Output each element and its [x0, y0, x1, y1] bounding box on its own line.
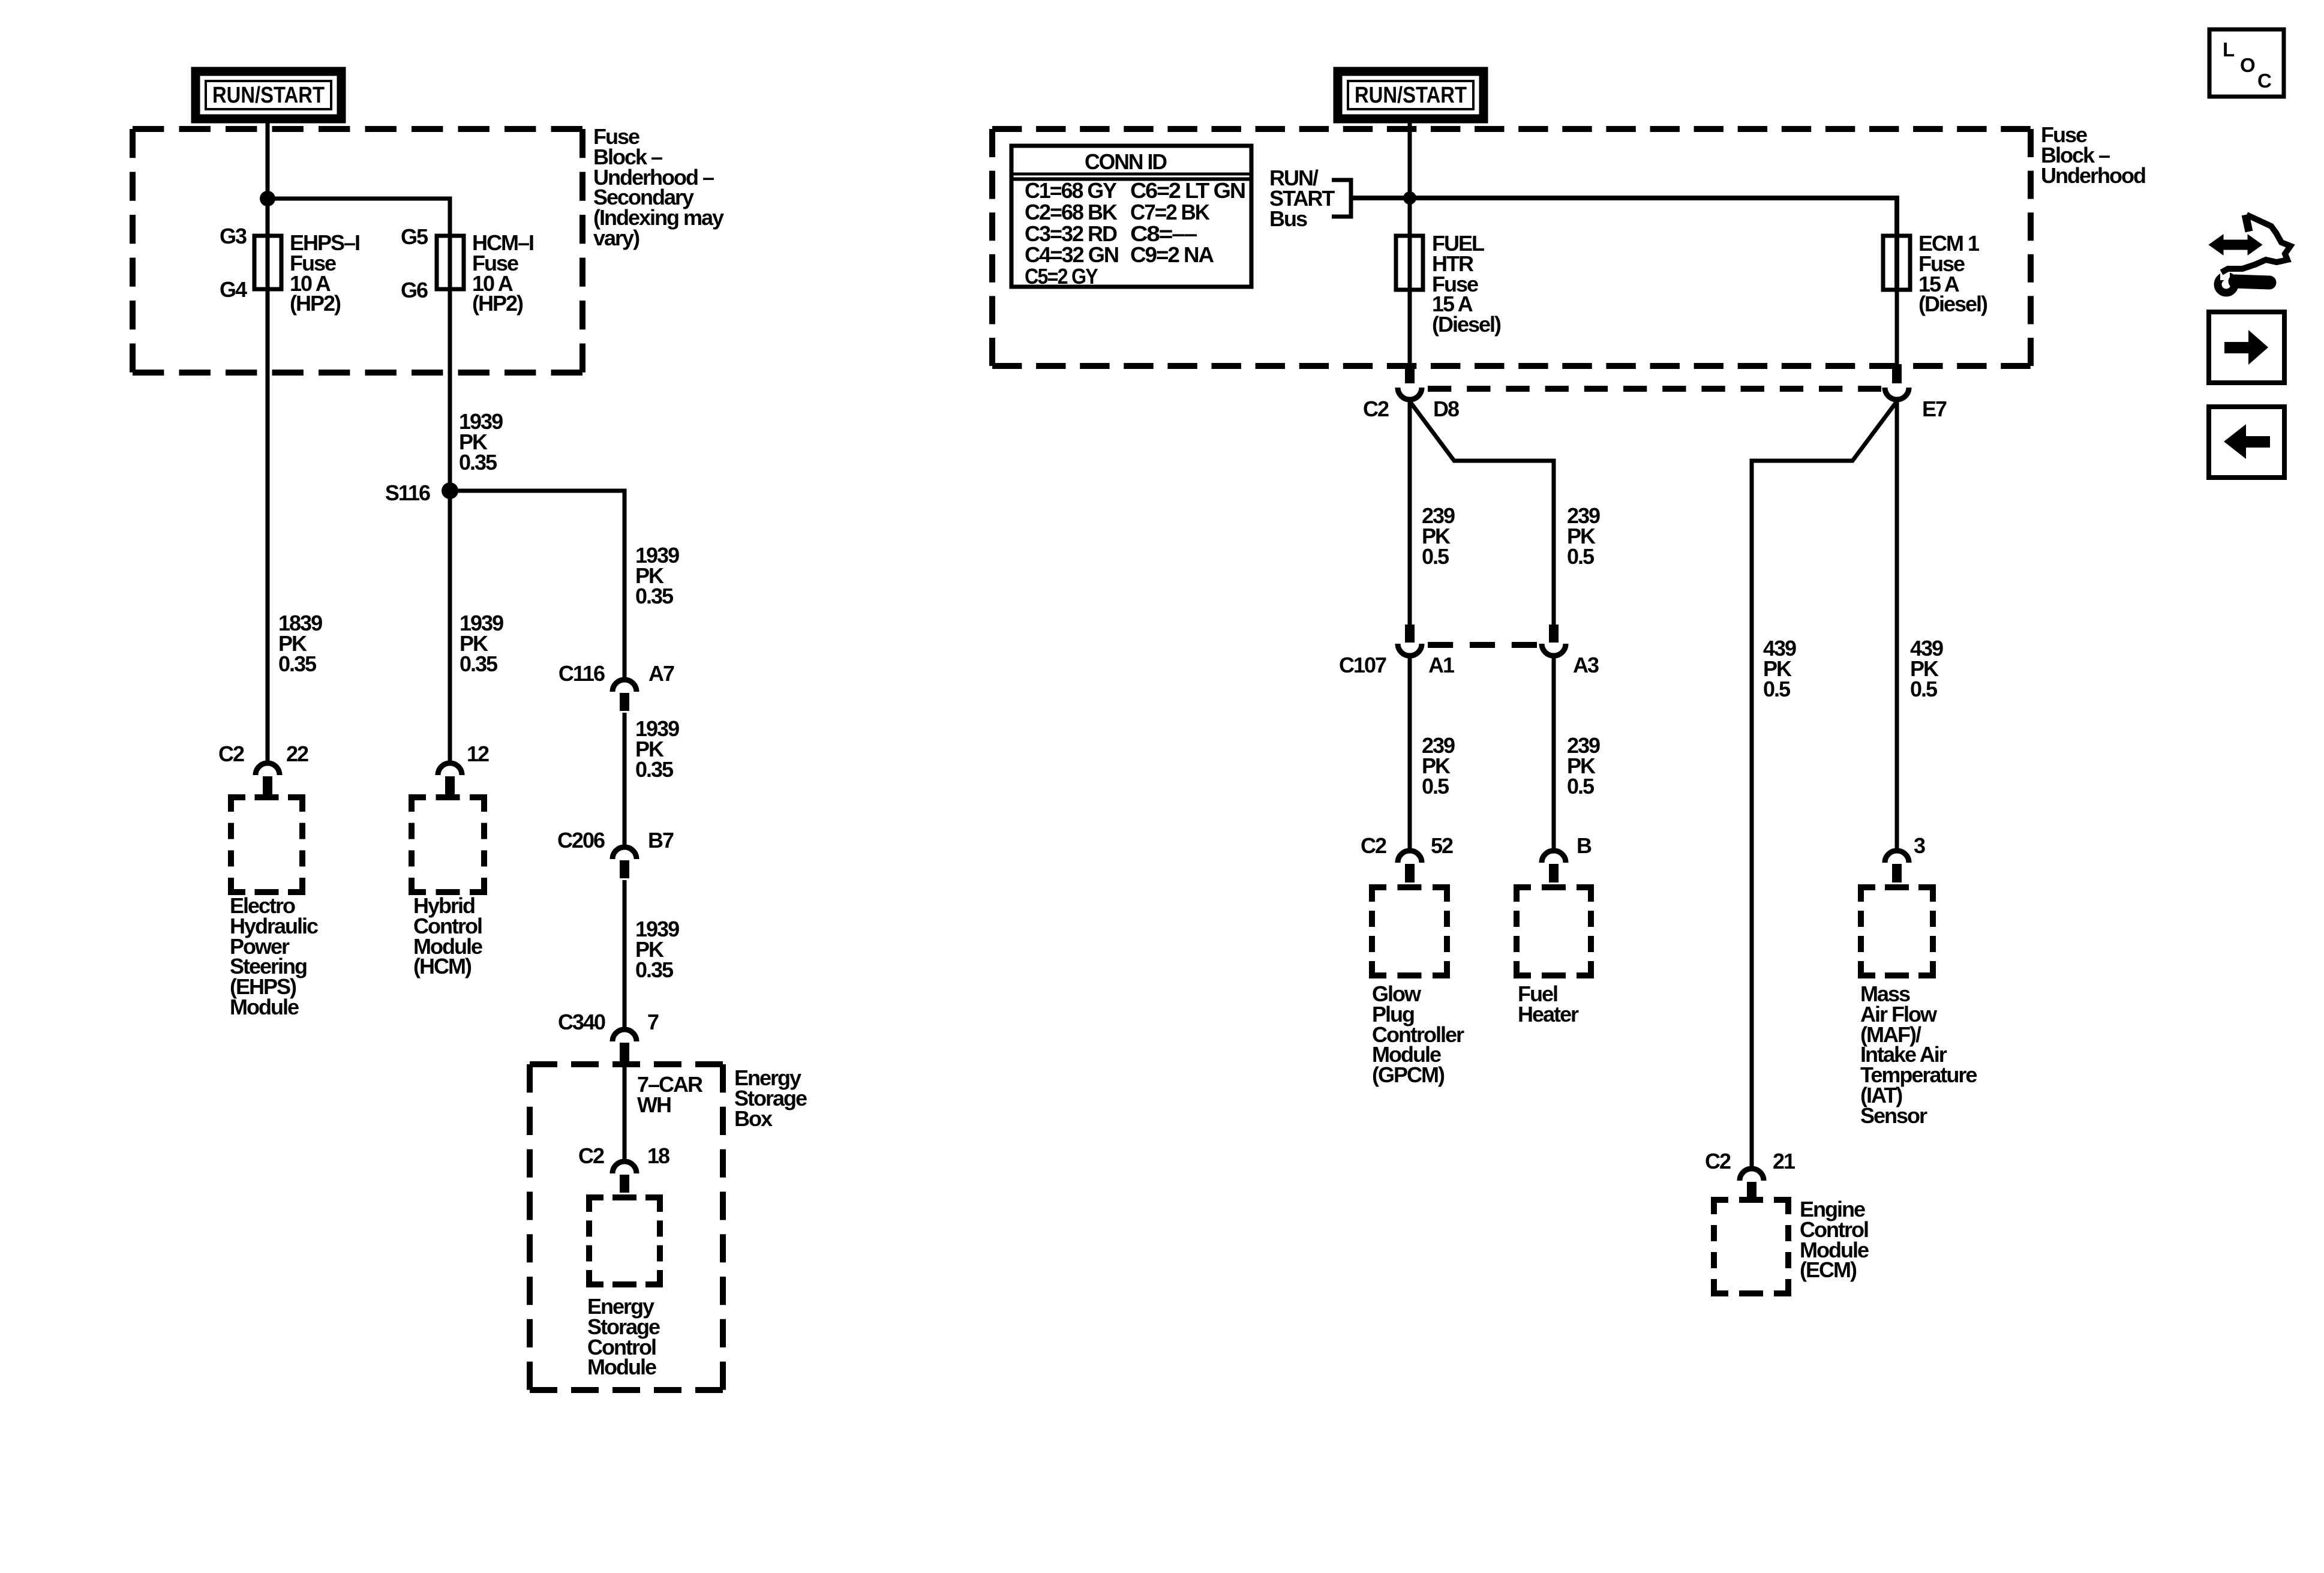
svg-text:vary): vary) [593, 226, 639, 250]
svg-text:22: 22 [286, 742, 308, 766]
svg-text:(Diesel): (Diesel) [1918, 292, 1987, 316]
RUN/START power label box (left) [196, 71, 341, 119]
junction node bus [1403, 191, 1416, 205]
svg-text:C6=2 LT GN: C6=2 LT GN [1130, 178, 1245, 203]
svg-text:E7: E7 [1922, 397, 1947, 421]
arrow-right legend box [2209, 312, 2284, 383]
svg-text:C9=2 NA: C9=2 NA [1130, 242, 1214, 267]
svg-text:0.35: 0.35 [635, 757, 674, 782]
svg-text:C2: C2 [1363, 397, 1389, 421]
svg-text:O: O [2240, 54, 2256, 76]
wire ECM 1 fuse to E7 [1895, 290, 1899, 365]
svg-text:RUN/START: RUN/START [1355, 83, 1467, 108]
svg-text:G3: G3 [220, 224, 247, 248]
svg-text:C2=68 BK: C2=68 BK [1025, 200, 1118, 224]
connector C116 pin A7 [612, 680, 636, 692]
RUN/START bus bracket [1332, 180, 1351, 217]
fuse FUEL HTR F3 [1396, 236, 1423, 290]
svg-text:18: 18 [647, 1143, 669, 1168]
wire C116 to C206 [623, 713, 627, 848]
splice S116 [442, 482, 458, 499]
wire 1939 PK HCM fuse to splice [448, 289, 452, 763]
svg-text:B: B [1577, 833, 1592, 858]
svg-text:Module: Module [587, 1355, 656, 1379]
svg-text:C: C [2257, 70, 2272, 92]
wire 239 PK D8 to C107 A1 [1408, 401, 1412, 625]
svg-text:G5: G5 [401, 224, 428, 249]
svg-text:C2: C2 [1705, 1149, 1731, 1173]
svg-text:0.5: 0.5 [1422, 774, 1449, 798]
wire 439 PK E7 to ECM [1752, 401, 1897, 1169]
RUN/START power label box (right) [1338, 71, 1484, 119]
svg-text:(HCM): (HCM) [413, 954, 472, 978]
svg-text:A1: A1 [1428, 653, 1455, 677]
fuse EHPS-I F1 [254, 236, 281, 289]
MAF sensor module dashed box [1861, 887, 1875, 902]
wire RUN/START to FUEL HTR fuse [1408, 119, 1412, 290]
arrow-left legend box [2209, 407, 2284, 478]
CONN ID header rule [1011, 173, 1251, 176]
fuse block connector dashed face [1428, 386, 1881, 392]
connector C2 pin 18 terminal [612, 1161, 636, 1173]
ECM module dashed box [1714, 1200, 1728, 1214]
svg-text:Module: Module [230, 995, 299, 1019]
svg-text:0.5: 0.5 [1910, 677, 1938, 701]
wire 7-CAR WH [623, 1067, 627, 1163]
svg-text:A7: A7 [648, 661, 674, 686]
svg-text:0.5: 0.5 [1763, 677, 1791, 701]
connector C206 pin B7 [612, 847, 636, 859]
svg-text:G4: G4 [220, 277, 247, 302]
svg-text:21: 21 [1773, 1149, 1795, 1173]
wire C206 to C340 [623, 880, 627, 1031]
wire A1 to GPCM [1408, 658, 1412, 852]
svg-text:52: 52 [1431, 833, 1453, 858]
fuel heater module dashed box [1517, 887, 1531, 902]
svg-text:(HP2): (HP2) [290, 291, 341, 316]
connector pin B terminal [1542, 851, 1566, 863]
svg-text:C4=32 GN: C4=32 GN [1025, 242, 1118, 267]
svg-text:Bus: Bus [1269, 206, 1307, 231]
svg-text:(GPCM): (GPCM) [1372, 1062, 1445, 1087]
svg-text:3: 3 [1914, 833, 1925, 858]
connector C2 pin D8 terminal [1405, 364, 1415, 383]
svg-text:CONN ID: CONN ID [1085, 149, 1167, 174]
svg-text:0.5: 0.5 [1422, 544, 1449, 569]
svg-text:C1=68 GY: C1=68 GY [1025, 178, 1117, 203]
svg-text:G6: G6 [401, 278, 428, 302]
svg-text:C5=2 GY: C5=2 GY [1025, 264, 1098, 289]
svg-text:0.35: 0.35 [278, 652, 317, 676]
svg-text:(ECM): (ECM) [1800, 1257, 1857, 1282]
svg-text:B7: B7 [648, 828, 674, 852]
LOC legend box [2209, 29, 2284, 97]
wire FUEL HTR fuse to C2 D8 [1408, 290, 1412, 365]
svg-text:12: 12 [467, 742, 489, 766]
svg-text:(HP2): (HP2) [472, 291, 523, 316]
svg-text:Heater: Heater [1518, 1002, 1579, 1026]
wire A3 to fuel heater [1552, 658, 1556, 852]
wire branch S116 to C116 [450, 491, 624, 680]
svg-text:A3: A3 [1573, 653, 1599, 677]
svg-text:C206: C206 [557, 828, 605, 852]
svg-text:0.35: 0.35 [460, 652, 498, 676]
svg-text:C2: C2 [578, 1143, 604, 1168]
C107 connector dashed face [1428, 642, 1537, 648]
HCM module dashed box [412, 797, 426, 812]
svg-text:C107: C107 [1339, 653, 1386, 677]
svg-text:C2: C2 [1361, 833, 1386, 858]
svg-text:0.5: 0.5 [1567, 774, 1595, 798]
fuse HCM-I F2 [437, 236, 464, 289]
svg-text:C116: C116 [559, 661, 605, 686]
wire 1839 PK EHPS fuse to EHPS module [266, 289, 270, 763]
EHPS module dashed box [231, 797, 245, 812]
wrench service icon [2210, 236, 2261, 254]
svg-text:0.35: 0.35 [635, 957, 674, 982]
svg-text:0.35: 0.35 [459, 450, 497, 475]
svg-text:7: 7 [647, 1010, 659, 1034]
fuse block secondary dashed box [133, 126, 582, 132]
connector pin 3 terminal [1885, 851, 1909, 863]
svg-text:(Diesel): (Diesel) [1432, 312, 1501, 337]
wire 239 PK D8 branch to A3 [1410, 401, 1554, 625]
GPCM module dashed box [1372, 887, 1386, 902]
wire branch to HCM-I fuse [268, 199, 450, 289]
CONN ID table box [1011, 146, 1251, 287]
svg-text:0.5: 0.5 [1567, 544, 1595, 569]
svg-text:L: L [2223, 38, 2235, 61]
connector C107 pin A1 terminal [1405, 625, 1415, 643]
svg-text:C2: C2 [218, 742, 244, 766]
connector C2 pin 21 terminal [1740, 1169, 1764, 1181]
svg-text:S116: S116 [385, 481, 430, 505]
connector C2 pin 52 terminal [1398, 851, 1422, 863]
svg-text:WH: WH [637, 1092, 671, 1117]
connector pin 12 terminal [438, 763, 462, 775]
junction node on left feed [260, 191, 275, 206]
connector C2 pin 22 terminal [256, 763, 280, 775]
fuse ECM 1 F4 [1883, 236, 1910, 290]
connector E7 terminal [1892, 364, 1902, 383]
svg-text:C7=2 BK: C7=2 BK [1130, 200, 1210, 224]
wire RUN/START to EHPS-I fuse [266, 119, 270, 289]
svg-text:D8: D8 [1433, 397, 1459, 421]
fuse block underhood dashed box [992, 126, 2031, 132]
RUN/START bus wire [1351, 198, 1897, 290]
energy storage box dashed outline [530, 1061, 723, 1067]
svg-text:C340: C340 [558, 1010, 605, 1034]
svg-text:Underhood: Underhood [2041, 163, 2145, 188]
wire 439 PK E7 to MAF [1895, 401, 1899, 852]
connector C107 pin A3 terminal [1549, 625, 1559, 643]
connector C340 pin 7 [612, 1029, 636, 1041]
svg-text:Box: Box [734, 1106, 773, 1131]
energy storage control module dashed box [589, 1197, 603, 1212]
svg-text:RUN/START: RUN/START [212, 83, 325, 108]
svg-text:0.35: 0.35 [635, 584, 674, 608]
svg-text:Sensor: Sensor [1860, 1103, 1927, 1128]
